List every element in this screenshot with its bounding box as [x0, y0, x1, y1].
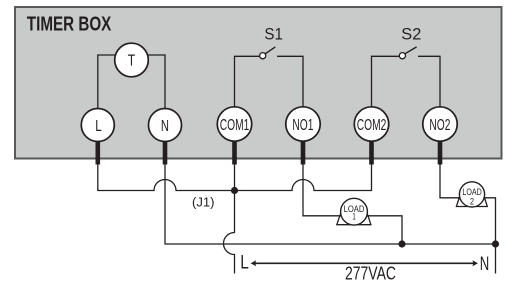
wire NO2 down to LOAD 2 — [440, 165, 460, 198]
switch S1 left wire from COM1 — [235, 56, 260, 107]
load 1 holder base — [337, 205, 371, 225]
wire N feeder down and across bottom — [165, 165, 496, 245]
junction dot load1/N line — [398, 240, 405, 247]
load 1 lamp circle — [341, 198, 368, 225]
svg-text:COM2: COM2 — [357, 117, 387, 134]
svg-text:L: L — [95, 118, 102, 135]
switch S1 pivot — [260, 53, 266, 59]
dimension arrow 277VAC — [254, 262, 475, 264]
load 2 lamp circle — [459, 182, 484, 207]
wire LOAD 2 to N line and N tick — [484, 198, 495, 274]
terminal N circle — [149, 109, 182, 142]
svg-text:L: L — [240, 253, 249, 274]
junction dot J1 — [231, 187, 238, 194]
svg-text:S2: S2 — [401, 24, 421, 43]
load 2 holder base — [456, 188, 487, 207]
svg-text:N: N — [161, 118, 169, 135]
svg-text:T: T — [128, 52, 136, 69]
junction dot N line right end — [492, 240, 499, 247]
svg-text:N: N — [480, 254, 490, 275]
svg-text:S1: S1 — [264, 24, 283, 43]
svg-text:277VAC: 277VAC — [345, 263, 396, 284]
terminal post COM1 — [232, 141, 237, 165]
svg-text:NO1: NO1 — [292, 117, 313, 134]
svg-text:COM1: COM1 — [220, 117, 250, 134]
terminal post NO1 — [301, 141, 306, 165]
terminal COM1 circle — [217, 107, 251, 141]
switch S2 blade — [405, 47, 417, 54]
svg-text:TIMER BOX: TIMER BOX — [27, 12, 112, 35]
terminal NO2 circle — [423, 107, 457, 141]
svg-text:LOAD: LOAD — [462, 187, 482, 197]
wire L feeder to COM1 and COM2 with hops over N and NO1 — [98, 165, 372, 191]
timer box enclosure — [15, 7, 502, 159]
svg-text:NO2: NO2 — [429, 117, 450, 134]
terminal L circle — [81, 109, 114, 142]
wire T left lead to L — [98, 55, 116, 109]
terminal post L — [96, 141, 101, 165]
switch S2 left wire from COM2 — [372, 56, 400, 107]
switch S2 pivot — [399, 53, 405, 59]
wire NO1 down to LOAD 1 — [303, 165, 341, 216]
wire LOAD 1 to N line junction — [367, 216, 402, 244]
timer T terminal circle — [115, 43, 149, 77]
wire COM1 down to junction J1 — [234, 165, 236, 191]
terminal COM2 circle — [354, 107, 388, 141]
switch S1 blade — [265, 47, 275, 54]
switch S1 right wire to NO1 — [277, 56, 303, 107]
svg-text:2: 2 — [470, 196, 474, 207]
terminal post COM2 — [369, 141, 374, 165]
terminal post NO2 — [438, 141, 443, 165]
terminal NO1 circle — [286, 107, 320, 141]
svg-text:1: 1 — [352, 211, 355, 222]
wire J1 down to L tick with hop over N line — [224, 191, 235, 274]
terminal post N — [163, 141, 168, 165]
wire T right lead to N — [147, 55, 165, 109]
svg-text:(J1): (J1) — [192, 195, 215, 209]
switch S2 right wire to NO2 — [418, 56, 440, 107]
